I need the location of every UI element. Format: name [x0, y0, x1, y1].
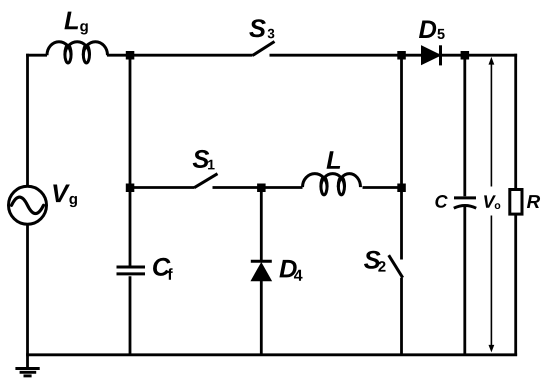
label S3: [249, 19, 274, 38]
wire left vertical lower: [26, 224, 29, 368]
wire right vertical: [514, 54, 517, 356]
label S2: [364, 251, 386, 272]
label R: [527, 195, 540, 208]
wire middle horizontal right: [213, 186, 303, 189]
wire branch S2 upper: [400, 55, 403, 259]
inductor Lg: [47, 42, 108, 63]
node junction top-Cf: [126, 51, 135, 60]
wire left vertical upper: [26, 54, 29, 187]
label S1: [193, 150, 215, 170]
wire top middle (Lg to S3): [107, 54, 253, 57]
wire branch D4 lower: [260, 281, 263, 355]
voltage source Vg: [9, 186, 47, 224]
wire branch D4 upper: [260, 188, 263, 261]
wire middle to branch3: [363, 186, 402, 189]
arrow Vo: [489, 57, 495, 353]
label Lg: [64, 12, 87, 35]
label Vg: [53, 185, 77, 208]
wire branch Cf upper: [129, 55, 132, 265]
wire middle horizontal left: [130, 186, 194, 189]
diode D5: [422, 45, 441, 65]
resistor R: [510, 190, 522, 215]
capacitor C: [454, 198, 476, 208]
wire branch C upper: [463, 55, 466, 196]
switch S1: [194, 174, 218, 188]
diode D4: [251, 261, 272, 280]
switch S3: [253, 42, 275, 56]
label Cf: [153, 258, 173, 280]
label D5: [419, 20, 445, 39]
wire bottom horizontal: [26, 353, 517, 356]
node junction top-S2: [397, 51, 406, 60]
label L: [327, 151, 341, 169]
ground: [15, 369, 39, 376]
label Vo: [484, 195, 500, 209]
node junction mid-S2: [397, 184, 406, 193]
label C: [435, 195, 447, 208]
node junction mid-Cf: [126, 184, 135, 193]
wire branch C lower: [463, 207, 466, 355]
wire top-left horizontal: [26, 54, 47, 57]
wire top right (S3 to corner): [270, 54, 518, 57]
node junction top-C: [461, 51, 470, 60]
wire branch S2 lower: [400, 278, 403, 355]
inductor L: [303, 174, 361, 195]
wire branch Cf lower: [129, 276, 132, 355]
capacitor Cf: [117, 267, 146, 274]
node junction mid-D4: [257, 184, 266, 193]
label D4: [279, 260, 302, 281]
switch S2: [389, 255, 403, 278]
